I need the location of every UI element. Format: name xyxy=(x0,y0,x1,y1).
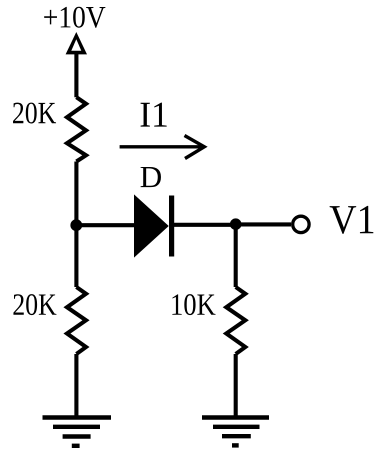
label D xyxy=(141,167,161,187)
wire: node A to diode anode xyxy=(76,223,136,227)
ground 1 xyxy=(43,418,112,446)
label +10V xyxy=(44,7,105,28)
label I1 xyxy=(141,103,167,127)
label 20K (upper resistor) xyxy=(13,103,56,124)
diode D triangle (anode) xyxy=(135,196,169,257)
wire: supply to resistor R1 top xyxy=(74,53,78,97)
resistor R2 20K zigzag xyxy=(67,287,86,354)
current arrow I1 xyxy=(120,136,205,159)
power supply arrow (open triangle) xyxy=(66,32,87,54)
resistor R1 20K zigzag xyxy=(67,97,86,161)
ground 2 xyxy=(202,418,269,446)
node B (junction dot) xyxy=(230,218,242,230)
wire: diode cathode to node B xyxy=(174,223,236,227)
wire: node A down to R2 top xyxy=(74,225,78,287)
wire: node B down to R3 top xyxy=(234,224,238,287)
label 20K (lower resistor) xyxy=(13,294,56,315)
label 10K xyxy=(172,294,215,315)
diode D cathode bar xyxy=(169,196,174,257)
resistor R3 10K zigzag xyxy=(226,287,245,354)
label V1 xyxy=(330,206,374,234)
terminal V1 (open circle) xyxy=(293,216,309,232)
node A (junction dot) xyxy=(70,219,82,231)
wire: R2 bottom to ground 1 xyxy=(74,354,78,417)
wire: node B to terminal V1 xyxy=(236,222,291,226)
wire: R3 bottom to ground 2 xyxy=(234,354,238,417)
wire: R1 bottom to node A xyxy=(74,162,78,226)
